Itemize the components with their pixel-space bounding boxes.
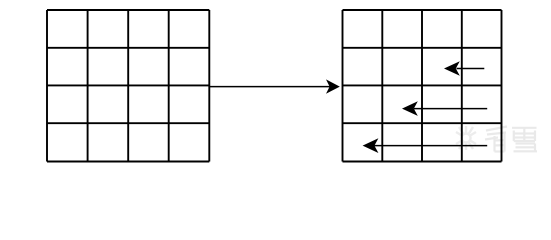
arrow B in right grid row 3 bbox=[402, 101, 487, 116]
right grid bbox=[343, 10, 502, 162]
watermark character kan bbox=[485, 127, 507, 152]
watermark snowflake icon bbox=[456, 126, 476, 150]
left grid bbox=[47, 10, 209, 162]
arrow C in right grid row 4 bbox=[363, 138, 488, 153]
arrow A in right grid row 2 bbox=[444, 61, 484, 76]
watermark character xue bbox=[512, 128, 537, 152]
main arrow from left grid to right grid bbox=[209, 79, 339, 93]
